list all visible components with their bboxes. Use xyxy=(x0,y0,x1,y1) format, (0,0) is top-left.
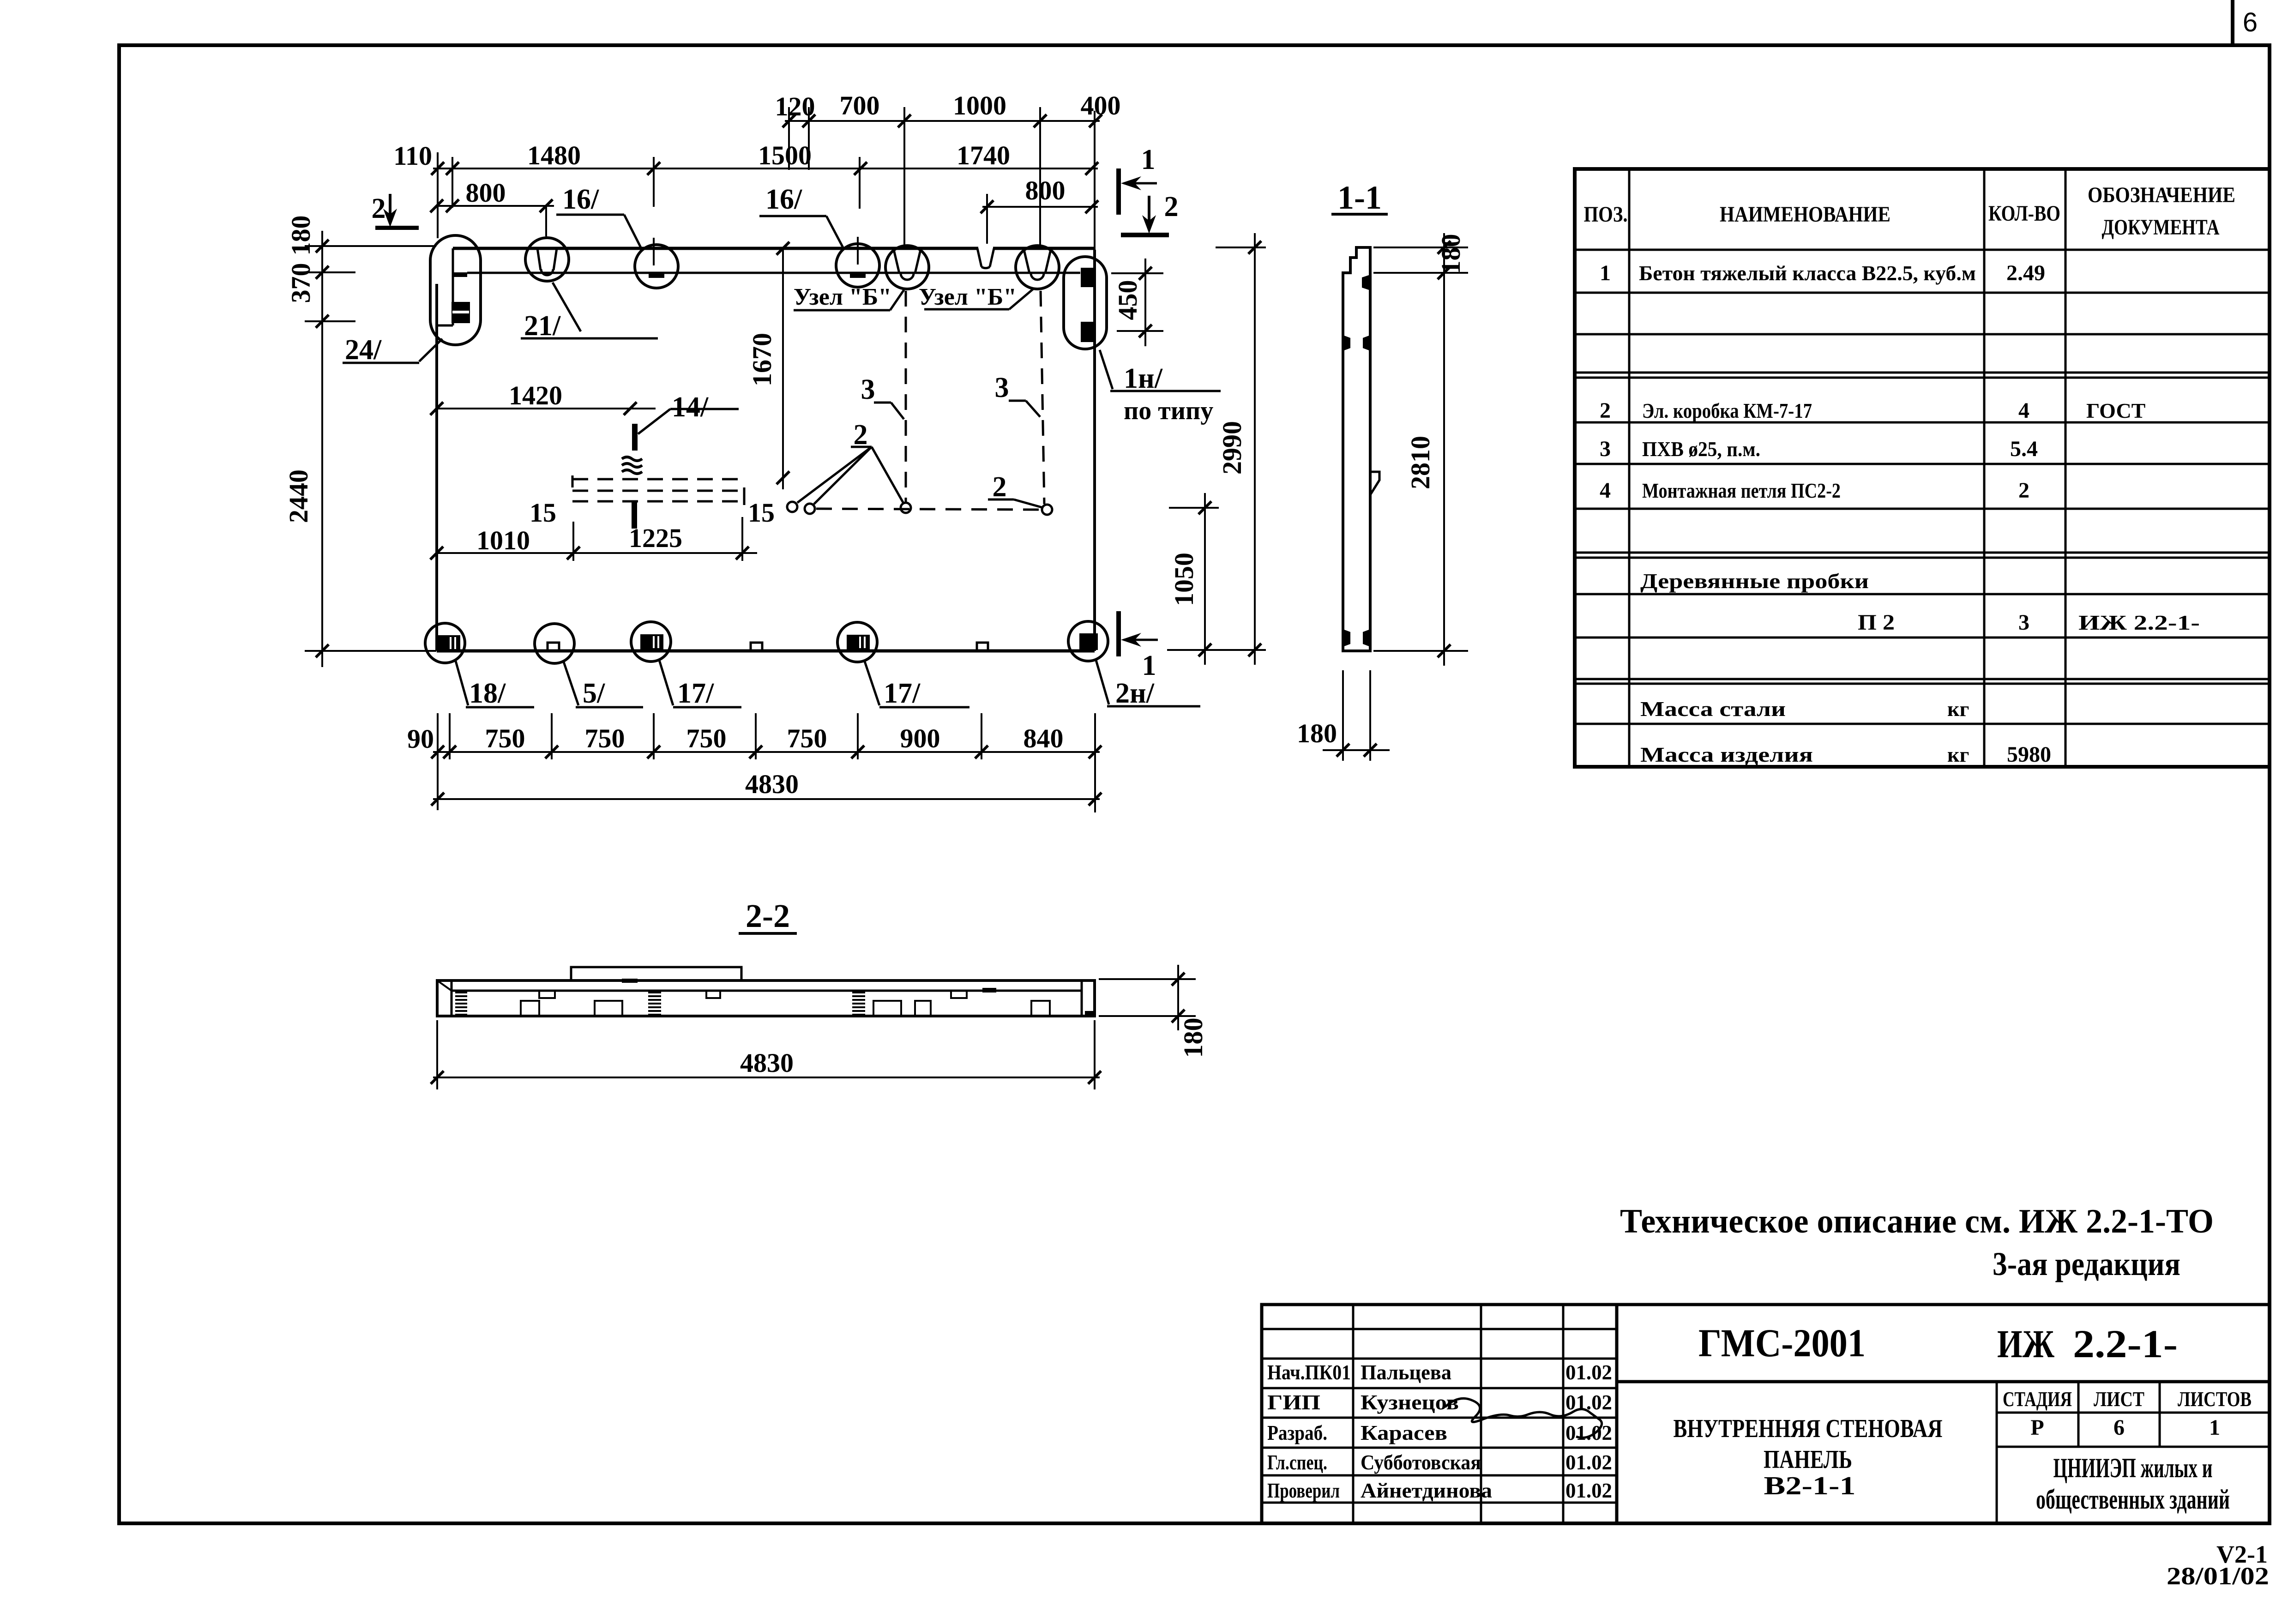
svg-text:700: 700 xyxy=(840,90,880,120)
box circle b3 xyxy=(901,503,911,513)
svg-text:2: 2 xyxy=(1600,398,1611,423)
svg-text:Масса стали: Масса стали xyxy=(1640,697,1786,721)
svg-text:СТАДИЯ: СТАДИЯ xyxy=(2003,1387,2072,1411)
svg-text:ИЖ: ИЖ xyxy=(1997,1322,2054,1366)
svg-text:Проверил: Проверил xyxy=(1267,1479,1340,1502)
svg-text:110: 110 xyxy=(393,141,432,171)
section 2-2 band outline xyxy=(437,967,1095,1016)
label 2 second xyxy=(988,471,1043,508)
svg-text:400: 400 xyxy=(1081,90,1121,120)
svg-text:Айнетдинова: Айнетдинова xyxy=(1361,1479,1492,1502)
dim 1670 xyxy=(747,242,789,489)
svg-text:общественных зданий: общественных зданий xyxy=(2036,1484,2230,1515)
label uzel B first xyxy=(794,284,904,310)
label 3 second xyxy=(995,372,1041,417)
svg-text:ЛИСТ: ЛИСТ xyxy=(2094,1387,2144,1411)
svg-text:840: 840 xyxy=(1024,723,1064,753)
svg-text:5/: 5/ xyxy=(583,678,605,709)
svg-text:2810: 2810 xyxy=(1405,436,1435,489)
section 1-1 profile xyxy=(1343,247,1379,651)
section 2-2 black marks xyxy=(622,979,1093,1015)
dim 1010 1225 xyxy=(430,498,775,561)
section 1-1 joint keys xyxy=(1343,275,1370,647)
svg-text:ГОСТ: ГОСТ xyxy=(2086,399,2145,422)
svg-text:180: 180 xyxy=(1436,234,1466,274)
channel dashed lines xyxy=(572,479,746,501)
label 16 second xyxy=(759,184,843,248)
svg-text:Узел "Б": Узел "Б" xyxy=(794,284,891,310)
svg-text:ИЖ 2.2-1-: ИЖ 2.2-1- xyxy=(2078,611,2200,634)
title block grid xyxy=(1262,1305,2270,1523)
spec row 1 concrete xyxy=(1600,261,2045,285)
svg-text:1500: 1500 xyxy=(758,140,812,170)
svg-text:90: 90 xyxy=(407,724,434,754)
svg-text:120: 120 xyxy=(775,91,815,121)
circle uzel B C5 xyxy=(1016,246,1059,289)
svg-text:3: 3 xyxy=(861,374,875,405)
label 3 first xyxy=(861,374,904,419)
svg-text:18/: 18/ xyxy=(469,678,506,709)
wood plug square mid2 xyxy=(977,643,988,650)
svg-text:450: 450 xyxy=(1113,280,1143,320)
spec row 2 el box xyxy=(1600,398,2145,423)
spec row product mass xyxy=(1640,742,2051,767)
pvc vertical dashed line 3b xyxy=(1041,291,1044,504)
lifting loop notch xyxy=(977,245,994,268)
label uzel B second xyxy=(919,284,1033,310)
svg-text:750: 750 xyxy=(686,723,727,753)
label 18 xyxy=(456,661,534,709)
svg-text:01.02: 01.02 xyxy=(1565,1450,1612,1474)
svg-text:Нач.ПК01: Нач.ПК01 xyxy=(1267,1360,1351,1384)
label 17 second xyxy=(864,660,969,709)
wood plug square mid1 xyxy=(751,643,762,650)
note tech description xyxy=(1620,1203,2214,1240)
stage header xyxy=(2003,1387,2252,1440)
label 24 xyxy=(343,334,442,366)
svg-text:01.02: 01.02 xyxy=(1565,1360,1612,1384)
label 2n xyxy=(1096,660,1200,709)
svg-text:2.2-1-: 2.2-1- xyxy=(2073,1322,2178,1366)
svg-text:ГМС-2001: ГМС-2001 xyxy=(1698,1321,1866,1365)
svg-text:1740: 1740 xyxy=(957,140,1010,170)
label 1n po tipu xyxy=(1100,350,1221,425)
svg-text:3-ая редакция: 3-ая редакция xyxy=(1993,1245,2180,1282)
circle 21 electric box C1 xyxy=(525,238,569,281)
bottom circle 2n L5 xyxy=(1068,621,1108,661)
svg-text:ПХВ ø25, п.м.: ПХВ ø25, п.м. xyxy=(1642,437,1760,461)
svg-text:15: 15 xyxy=(748,498,775,528)
svg-text:НАИМЕНОВАНИЕ: НАИМЕНОВАНИЕ xyxy=(1720,202,1891,227)
svg-text:2: 2 xyxy=(1164,191,1179,223)
svg-text:21/: 21/ xyxy=(524,310,561,342)
title GMS-2001 xyxy=(1698,1321,1866,1365)
svg-text:14/: 14/ xyxy=(672,391,709,423)
spec row 3 pvc xyxy=(1600,437,2038,461)
svg-text:3: 3 xyxy=(995,372,1009,403)
svg-text:ГИП: ГИП xyxy=(1267,1390,1320,1414)
staff row nachPK01 xyxy=(1267,1360,1612,1384)
pvc vertical dashed line 3a xyxy=(905,291,907,502)
staff row razrab xyxy=(1267,1421,1612,1444)
svg-text:2: 2 xyxy=(372,193,386,224)
svg-text:180: 180 xyxy=(286,216,316,256)
svg-text:16/: 16/ xyxy=(765,184,802,215)
svg-text:17/: 17/ xyxy=(884,678,921,709)
label 14 xyxy=(638,391,739,434)
svg-text:750: 750 xyxy=(787,723,827,753)
dim 450 xyxy=(1111,259,1163,346)
box circle b4 xyxy=(1042,505,1052,515)
svg-text:900: 900 xyxy=(900,723,940,753)
spec table grid xyxy=(1575,169,2270,767)
svg-text:Узел "Б": Узел "Б" xyxy=(919,284,1017,310)
svg-text:Бетон тяжелый класса В22.5, ку: Бетон тяжелый класса В22.5, куб.м xyxy=(1639,261,1976,285)
svg-text:ДОКУМЕНТА: ДОКУМЕНТА xyxy=(2102,215,2220,240)
circle 16 C3 xyxy=(836,244,879,287)
svg-text:Карасев: Карасев xyxy=(1361,1421,1447,1444)
label 17 first xyxy=(659,660,741,709)
svg-text:15: 15 xyxy=(530,498,556,528)
svg-text:кг: кг xyxy=(1947,743,1969,766)
svg-text:1000: 1000 xyxy=(953,90,1006,120)
svg-text:16/: 16/ xyxy=(562,184,599,215)
sheet number 6 xyxy=(2243,7,2258,37)
circle uzel B C4 xyxy=(885,246,929,289)
dim row B 110 1480 1500 1740 xyxy=(393,111,1098,265)
svg-text:2-2: 2-2 xyxy=(746,897,790,934)
svg-text:2990: 2990 xyxy=(1217,421,1247,475)
svg-text:5980: 5980 xyxy=(2007,742,2051,767)
box circle b1 xyxy=(787,502,797,512)
spec row P2 xyxy=(1858,610,2200,635)
svg-text:24/: 24/ xyxy=(345,334,382,366)
svg-text:180: 180 xyxy=(1297,718,1337,748)
svg-text:800: 800 xyxy=(466,178,506,208)
label 21 xyxy=(521,283,658,342)
svg-text:Техническое описание см. ИЖ 2: Техническое описание см. ИЖ 2.2-1-ТО xyxy=(1620,1203,2214,1240)
svg-text:1225: 1225 xyxy=(629,523,682,553)
svg-text:Гл.спец.: Гл.спец. xyxy=(1267,1450,1327,1474)
svg-text:370: 370 xyxy=(286,263,316,303)
title IZh 2.2-1 xyxy=(1997,1322,2178,1366)
svg-text:6: 6 xyxy=(2243,7,2258,37)
dim 2990 xyxy=(1167,233,1266,665)
spec table header xyxy=(1584,183,2236,240)
svg-text:1010: 1010 xyxy=(476,525,530,555)
svg-text:180: 180 xyxy=(1178,1018,1208,1058)
bottom circle 17 L4 xyxy=(837,622,877,662)
bottom circle 18 L1 xyxy=(425,623,465,663)
dim row A 120 700 1000 400 xyxy=(775,90,1121,248)
svg-text:6: 6 xyxy=(2113,1415,2125,1440)
svg-text:28/01/02: 28/01/02 xyxy=(2167,1562,2269,1590)
pvc tube bar upper xyxy=(632,424,638,451)
bottom circle 5 L2 xyxy=(535,624,574,663)
svg-text:ПОЗ.: ПОЗ. xyxy=(1584,202,1628,227)
section mark 1 bottom right xyxy=(1116,611,1158,681)
svg-text:Р: Р xyxy=(2030,1415,2044,1440)
label 16 first xyxy=(556,184,642,249)
svg-text:1: 1 xyxy=(1142,650,1156,681)
box circle b2 xyxy=(805,504,815,514)
section 2-2 plug hatches xyxy=(455,992,865,1015)
svg-text:кг: кг xyxy=(1947,697,1969,721)
section 1-1 dim 180 bottom xyxy=(1297,670,1390,761)
svg-text:Разраб.: Разраб. xyxy=(1267,1421,1327,1444)
svg-text:1н/: 1н/ xyxy=(1124,363,1163,394)
section 2-2 dim 4830 xyxy=(431,1020,1101,1089)
svg-text:750: 750 xyxy=(485,723,525,753)
dim 1050 xyxy=(1169,493,1219,665)
section mark 2 left xyxy=(372,193,419,230)
left keyway stadium 24 xyxy=(430,235,481,345)
svg-text:4830: 4830 xyxy=(740,1048,794,1078)
section 2-2 dim 180 xyxy=(1099,965,1208,1058)
svg-text:ЛИСТОВ: ЛИСТОВ xyxy=(2178,1387,2252,1411)
label 5 xyxy=(564,662,643,709)
svg-text:Субботовская: Субботовская xyxy=(1361,1450,1481,1474)
svg-text:по типу: по типу xyxy=(1124,397,1213,425)
label 2 first with fan xyxy=(797,419,903,504)
dim 1420 xyxy=(430,380,656,415)
section mark 1 top right xyxy=(1116,144,1157,215)
svg-text:1-1: 1-1 xyxy=(1337,179,1382,216)
svg-text:2440: 2440 xyxy=(283,469,313,523)
svg-text:5.4: 5.4 xyxy=(2010,437,2038,461)
svg-text:Монтажная петля ПС2-2: Монтажная петля ПС2-2 xyxy=(1642,479,1841,502)
section 1-1 dim 180 2810 xyxy=(1373,233,1468,666)
sheet number tick xyxy=(2231,0,2234,45)
break squiggle xyxy=(622,457,642,474)
pvc tube bar lower xyxy=(632,501,637,529)
svg-text:750: 750 xyxy=(585,723,625,753)
spec row wooden plugs xyxy=(1640,569,1869,593)
svg-text:1050: 1050 xyxy=(1169,553,1199,606)
svg-text:В2-1-1: В2-1-1 xyxy=(1764,1472,1856,1500)
section 2-2 title xyxy=(739,897,797,934)
svg-text:Кузнецов: Кузнецов xyxy=(1361,1390,1459,1414)
section mark 2 top right xyxy=(1121,191,1179,237)
dim 800 right xyxy=(981,175,1098,244)
svg-text:4: 4 xyxy=(1600,478,1611,503)
svg-text:2.49: 2.49 xyxy=(2006,261,2045,285)
org name xyxy=(2036,1453,2230,1515)
section 2-2 small boxes xyxy=(521,991,1050,1016)
bottom circle 17 L3 xyxy=(631,622,671,662)
spec row steel mass xyxy=(1640,697,1969,721)
svg-text:1: 1 xyxy=(1600,261,1611,285)
svg-text:ВНУТРЕННЯЯ СТЕНОВАЯ: ВНУТРЕННЯЯ СТЕНОВАЯ xyxy=(1674,1414,1943,1443)
svg-text:1: 1 xyxy=(1141,144,1156,175)
svg-text:2н/: 2н/ xyxy=(1115,678,1155,709)
circle 16 C2 xyxy=(635,245,678,288)
svg-text:2: 2 xyxy=(993,471,1007,503)
svg-text:Масса изделия: Масса изделия xyxy=(1640,743,1813,766)
svg-text:ОБОЗНАЧЕНИЕ: ОБОЗНАЧЕНИЕ xyxy=(2088,183,2235,207)
svg-text:3: 3 xyxy=(1600,437,1611,461)
svg-text:4830: 4830 xyxy=(745,769,799,799)
dim left 180 370 2440 xyxy=(283,216,436,668)
boxes dashed line row xyxy=(816,509,1042,510)
note edition xyxy=(1993,1245,2180,1282)
svg-text:Деревянные пробки: Деревянные пробки xyxy=(1640,569,1869,593)
svg-text:Пальцева: Пальцева xyxy=(1361,1360,1451,1384)
svg-text:1670: 1670 xyxy=(747,333,777,386)
svg-text:1480: 1480 xyxy=(527,140,581,170)
panel plan outline xyxy=(437,248,1095,651)
svg-text:Эл. коробка КМ-7-17: Эл. коробка КМ-7-17 xyxy=(1642,399,1812,422)
doc code V2-1 xyxy=(2167,1540,2269,1590)
svg-text:4: 4 xyxy=(2018,398,2029,423)
staff row glspec xyxy=(1267,1450,1612,1474)
svg-text:01.02: 01.02 xyxy=(1565,1479,1612,1502)
svg-text:2: 2 xyxy=(2018,478,2029,503)
dim 800 left xyxy=(430,178,554,236)
right keyway stadium 1n xyxy=(1064,257,1107,349)
section 2-2 inner line xyxy=(452,990,1082,992)
dim 4830 plan xyxy=(431,769,1102,806)
svg-text:ЦНИИЭП жилых и: ЦНИИЭП жилых и xyxy=(2053,1453,2213,1483)
svg-text:3: 3 xyxy=(2018,610,2029,635)
svg-text:1420: 1420 xyxy=(509,380,562,410)
svg-text:П 2: П 2 xyxy=(1858,610,1895,635)
svg-text:КОЛ-ВО: КОЛ-ВО xyxy=(1988,201,2060,226)
section 1-1 title xyxy=(1331,179,1388,216)
staff row proveril xyxy=(1267,1479,1612,1502)
channel dashed end caps xyxy=(572,475,744,505)
title panel name xyxy=(1674,1414,1943,1500)
svg-text:1: 1 xyxy=(2209,1415,2220,1440)
svg-text:01.02: 01.02 xyxy=(1565,1421,1612,1444)
dim bottom row 90 750x4 900 840 xyxy=(407,713,1102,812)
staff row GIP xyxy=(1267,1390,1612,1414)
svg-text:17/: 17/ xyxy=(677,678,714,709)
signature scribble xyxy=(1445,1398,1602,1438)
spec row 4 loop xyxy=(1600,478,2029,503)
svg-text:800: 800 xyxy=(1025,175,1066,205)
svg-text:ПАНЕЛЬ: ПАНЕЛЬ xyxy=(1764,1445,1852,1474)
